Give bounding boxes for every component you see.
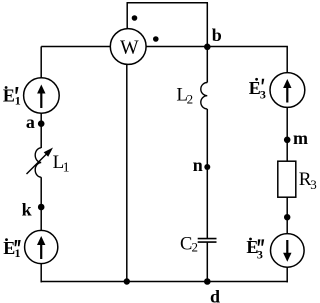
wire C2 to node d	[206, 242, 208, 281]
svg-text:a: a	[26, 112, 35, 132]
svg-text:2: 2	[187, 91, 194, 106]
node a	[38, 120, 45, 127]
svg-text:1: 1	[15, 246, 21, 260]
svg-text:n: n	[193, 155, 203, 175]
wire E1'' bottom to bottom rail	[40, 263, 42, 282]
label E1''	[3, 238, 21, 260]
label E3'	[249, 78, 266, 102]
wire top rectangle horizontal	[127, 2, 209, 4]
wire left branch vertical top	[40, 47, 42, 78]
junction dot between R3 and E3''	[284, 214, 290, 220]
label E3''	[246, 237, 264, 261]
inductor L2	[201, 83, 208, 109]
svg-text:C: C	[180, 234, 192, 254]
node n	[204, 164, 210, 170]
wire top-left horizontal from left branch to wattmeter	[41, 46, 110, 48]
node b	[204, 44, 211, 51]
svg-text:W: W	[120, 36, 139, 58]
label E1'	[3, 86, 21, 108]
wire R3 to E3''	[286, 197, 288, 234]
node k	[38, 204, 45, 211]
wire L2 to C2 through node n	[206, 109, 208, 238]
wire top rectangle right vertical to node b	[206, 3, 208, 47]
wire E3'' bottom to bottom rail	[286, 267, 288, 282]
svg-text:1: 1	[63, 161, 70, 176]
node d	[204, 278, 211, 285]
svg-text:3: 3	[260, 87, 266, 101]
label L1	[53, 152, 70, 176]
wattmeter W	[110, 29, 146, 65]
node m	[284, 137, 291, 144]
wire node b down to L2	[206, 47, 208, 83]
label R3	[299, 169, 317, 192]
svg-text:2: 2	[192, 240, 199, 255]
wire node a segment	[40, 113, 42, 148]
source E1'	[24, 78, 60, 114]
svg-text:3: 3	[257, 248, 263, 262]
svg-text:E: E	[3, 238, 15, 258]
wire bottom rail	[41, 281, 288, 283]
svg-text:m: m	[293, 128, 308, 148]
resistor R3	[278, 161, 296, 197]
L1 arrow	[27, 148, 54, 175]
wire wattmeter right to node b and to right branch	[146, 46, 288, 48]
svg-text:E: E	[3, 86, 15, 106]
wire wattmeter bottom vertical	[126, 64, 128, 281]
wire E3' to R3 through node m	[286, 107, 288, 161]
wire wattmeter top vertical	[126, 3, 128, 29]
svg-text:d: d	[210, 286, 220, 303]
source E3'' (arrow down)	[271, 234, 305, 268]
svg-text:3: 3	[310, 177, 317, 192]
source E3'	[270, 73, 305, 108]
svg-text:b: b	[212, 25, 222, 45]
wire k segment	[40, 177, 42, 230]
svg-text:k: k	[22, 199, 32, 219]
source E1''	[25, 230, 58, 263]
svg-text:1: 1	[15, 93, 21, 107]
junction at wattmeter bottom on rail	[124, 278, 130, 284]
wattmeter polarity dot (current coil)	[153, 36, 159, 42]
label C2	[180, 234, 198, 254]
wattmeter polarity dot (voltage coil)	[132, 15, 138, 21]
inductor L1 (variable)	[35, 148, 41, 177]
label L2	[176, 84, 193, 106]
capacitor C2	[198, 239, 217, 243]
wire right branch vertical top	[286, 47, 288, 73]
